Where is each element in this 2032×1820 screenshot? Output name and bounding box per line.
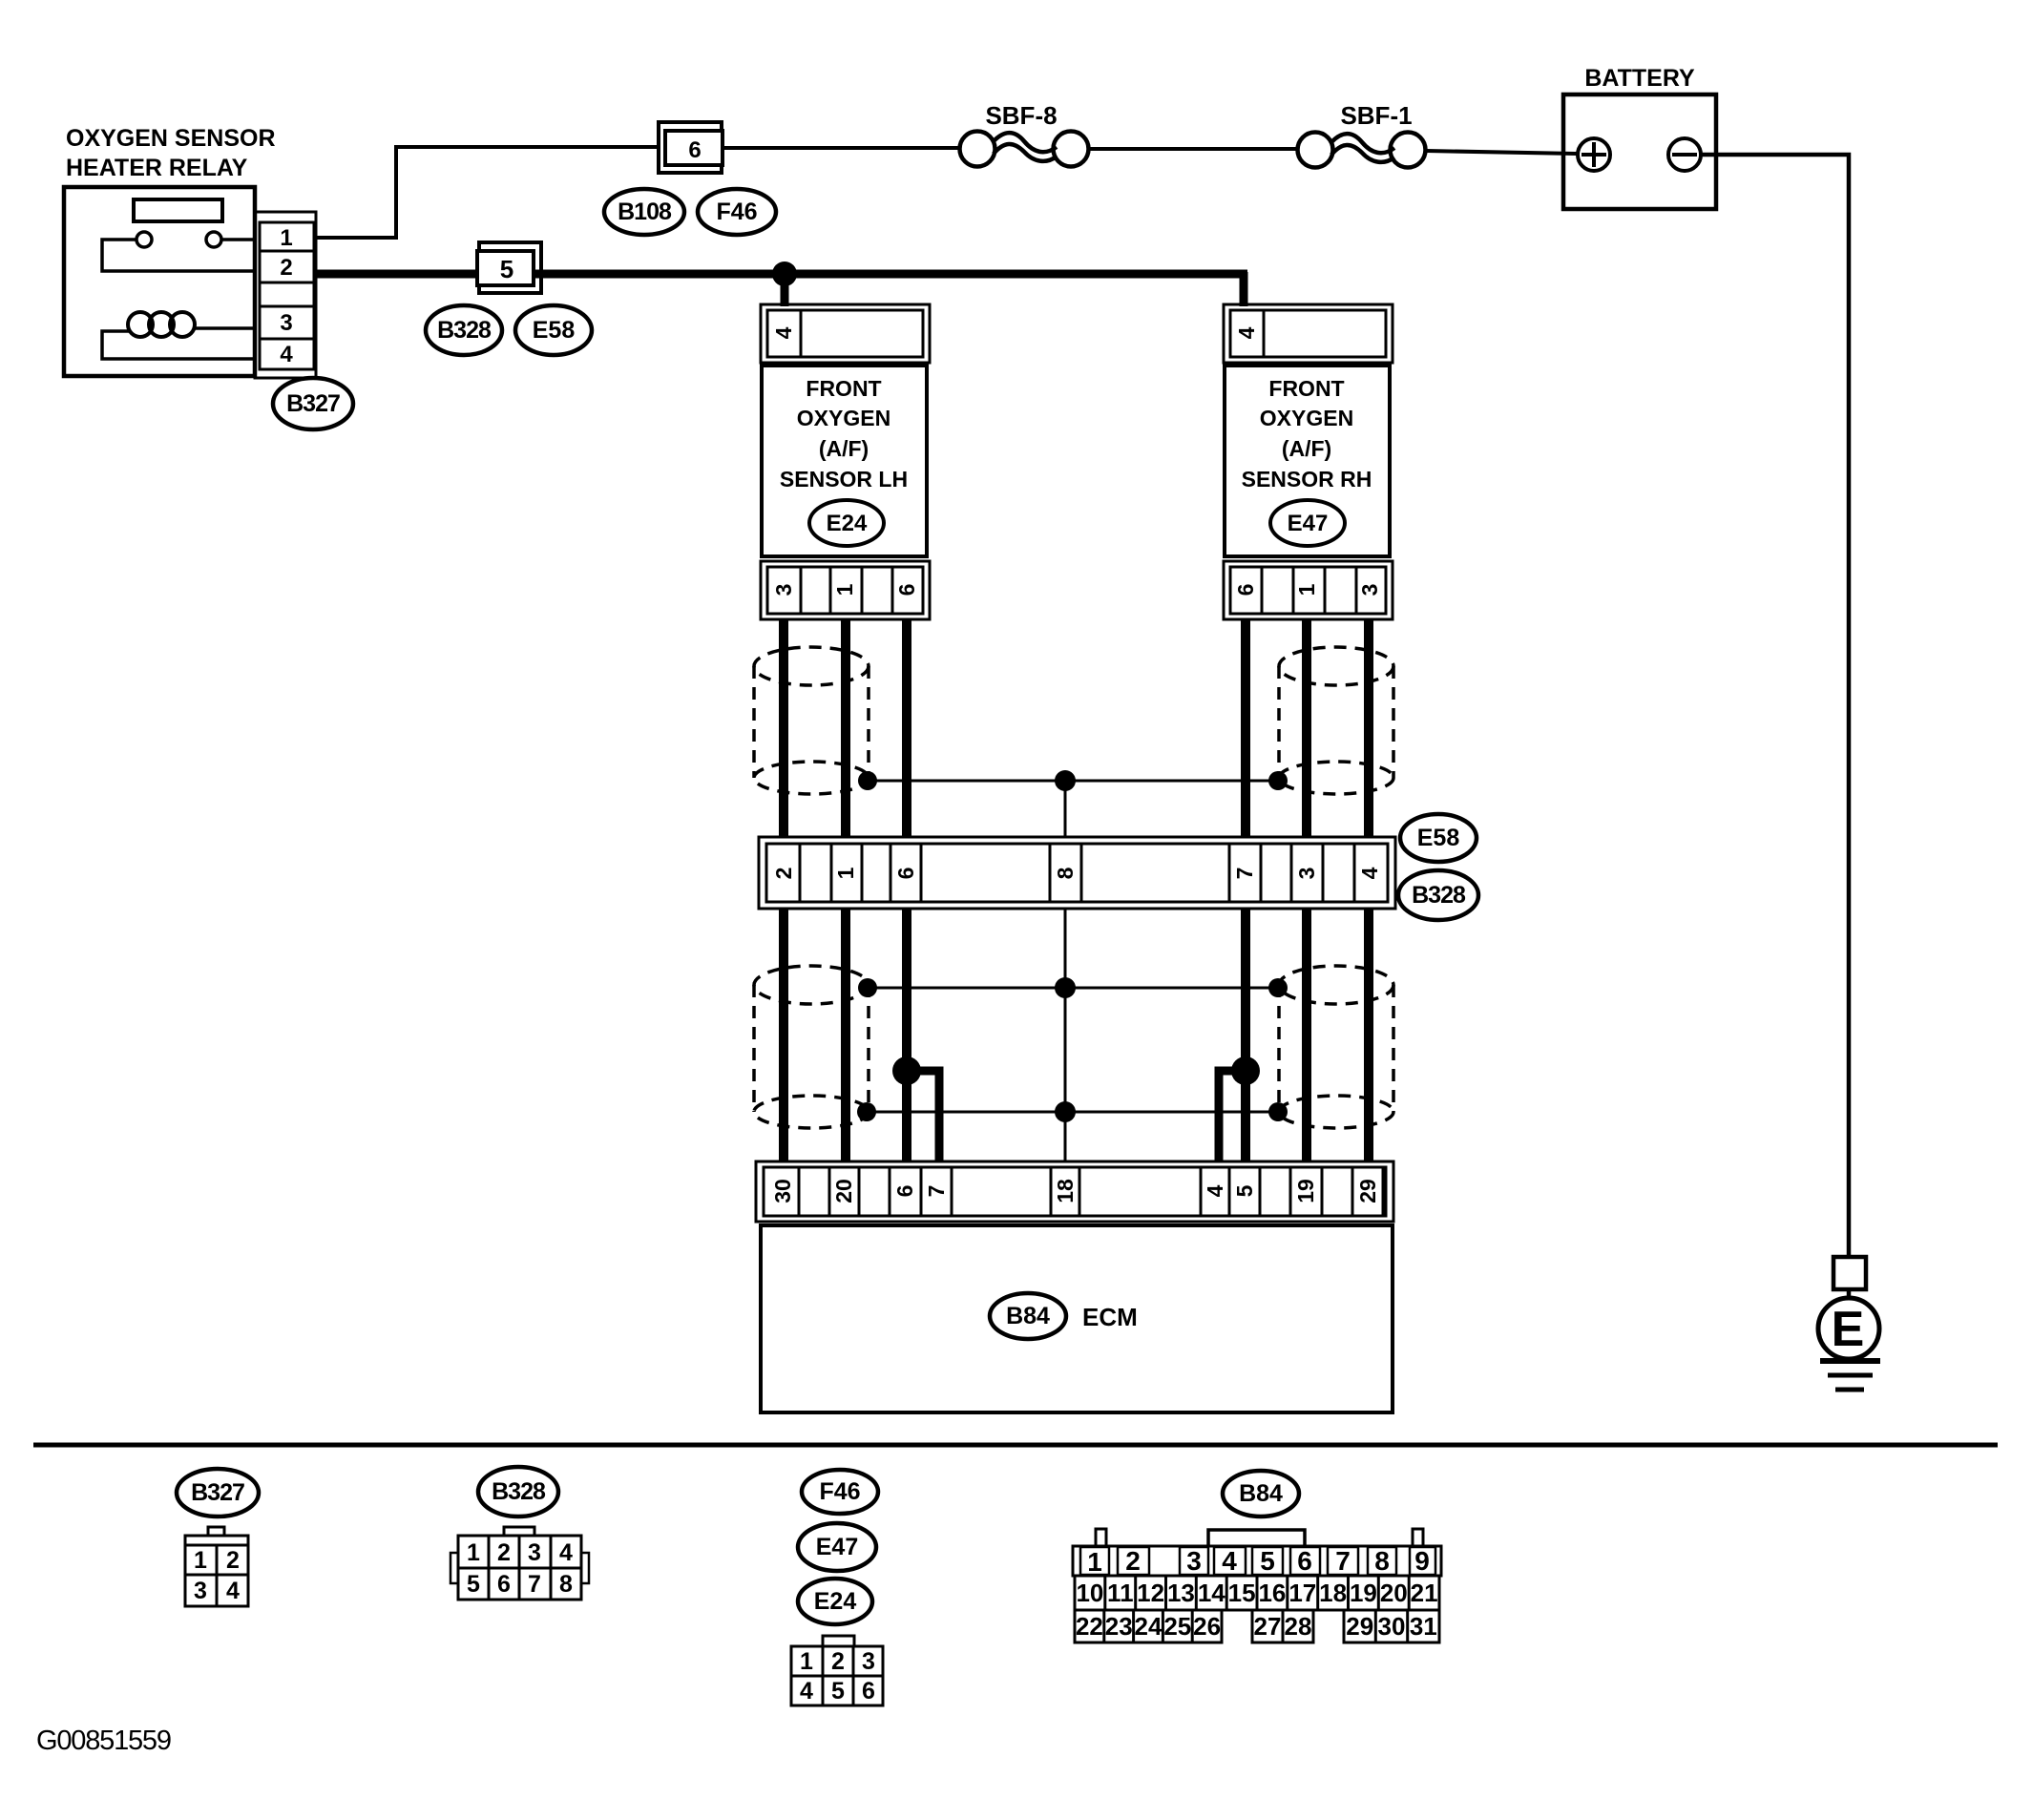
legend connector B327 (2x2) (208, 1527, 224, 1536)
svg-text:29: 29 (1346, 1612, 1373, 1641)
svg-text:1: 1 (1087, 1547, 1102, 1577)
svg-text:1: 1 (1294, 583, 1319, 596)
svg-text:6: 6 (1233, 584, 1258, 596)
relay contact bar (134, 199, 222, 221)
wire: bus drop to LH sensor pin 4 (781, 274, 789, 306)
wire: B327 pin 1 up to fuse 6 (316, 147, 660, 238)
svg-text:17: 17 (1288, 1579, 1316, 1607)
front oxygen (A/F) sensor LH box (762, 366, 927, 556)
wire: right contact to pin 1 (221, 238, 255, 241)
ellipse label F46 (fuse 6) (698, 189, 776, 235)
svg-text:20: 20 (831, 1179, 856, 1203)
svg-text:5: 5 (1260, 1546, 1275, 1576)
shield drain wire (lower bottom) (867, 1111, 1278, 1114)
svg-text:1: 1 (280, 225, 292, 251)
fuse 6 (659, 122, 722, 173)
svg-text:E47: E47 (1288, 511, 1329, 536)
svg-text:24: 24 (1135, 1612, 1163, 1641)
svg-text:B84: B84 (1006, 1303, 1050, 1329)
svg-text:20: 20 (1380, 1579, 1408, 1607)
junction dot LH branch (892, 1056, 921, 1085)
svg-text:8: 8 (1053, 867, 1078, 879)
svg-text:E24: E24 (814, 1588, 857, 1615)
branch wire to ECM 4 (1219, 1071, 1246, 1161)
battery - terminal (1668, 138, 1701, 171)
svg-text:B84: B84 (1239, 1480, 1283, 1507)
wire: SBF-8 to SBF-1 (1089, 147, 1298, 151)
svg-text:4: 4 (800, 1678, 813, 1705)
RH sensor top connector (pin 4) (1224, 304, 1393, 363)
svg-text:E24: E24 (827, 511, 868, 536)
svg-text:19: 19 (1293, 1179, 1318, 1203)
svg-text:SBF-8: SBF-8 (985, 101, 1057, 130)
svg-text:7: 7 (528, 1571, 541, 1598)
wire: coil left lead to pin 4 (102, 331, 255, 359)
svg-text:3: 3 (1186, 1546, 1202, 1576)
ellipse label B84 (in ECM) (990, 1293, 1066, 1339)
svg-text:6: 6 (893, 868, 918, 880)
svg-text:SENSOR LH: SENSOR LH (780, 467, 908, 492)
svg-text:4: 4 (226, 1578, 240, 1604)
svg-text:30: 30 (770, 1179, 795, 1203)
relay contact right (206, 232, 221, 247)
svg-text:10: 10 (1076, 1579, 1103, 1607)
svg-text:2: 2 (831, 1648, 845, 1675)
svg-text:OXYGEN: OXYGEN (1260, 406, 1353, 430)
svg-text:2: 2 (497, 1539, 511, 1566)
legend ellipse E24 (798, 1579, 872, 1624)
ellipse label B328 (at fuse 5) (426, 305, 502, 355)
wire: SBF-1 to battery (1426, 151, 1579, 154)
relay box (oxygen sensor heater relay body) (64, 187, 255, 376)
LH sensor bottom connector (pins 3,1,6) (761, 561, 930, 619)
legend ellipse B328 (478, 1467, 558, 1517)
svg-text:7: 7 (1232, 868, 1257, 880)
svg-text:B328: B328 (1412, 882, 1466, 909)
ECM box (761, 1225, 1393, 1412)
svg-text:6: 6 (497, 1571, 511, 1598)
svg-text:7: 7 (924, 1185, 949, 1198)
shield drain wire (lower top) (868, 987, 1278, 990)
svg-text:18: 18 (1319, 1579, 1347, 1607)
svg-text:(A/F): (A/F) (819, 436, 869, 461)
connector row E58/B328 (759, 837, 1395, 909)
svg-text:3: 3 (1357, 584, 1382, 596)
svg-text:27: 27 (1254, 1612, 1282, 1641)
wire: bus drop to RH sensor pin 4 (1240, 272, 1248, 306)
svg-text:SBF-1: SBF-1 (1340, 101, 1412, 130)
svg-text:OXYGEN: OXYGEN (797, 406, 890, 430)
wire: coil right lead to pin 3 (195, 326, 255, 330)
svg-text:8: 8 (559, 1571, 573, 1598)
svg-text:4: 4 (1234, 326, 1259, 339)
svg-text:1: 1 (800, 1648, 813, 1675)
row pin numbers 2,1,6,8,7,3,4 (771, 867, 1382, 879)
drain dot LH upper (858, 771, 877, 790)
legend connector B84 row3 (1075, 1610, 1439, 1642)
svg-text:1: 1 (194, 1547, 207, 1574)
svg-text:HEATER RELAY: HEATER RELAY (66, 155, 248, 181)
wire 8 to ECM 18 (1064, 909, 1067, 1161)
svg-text:E47: E47 (816, 1534, 858, 1560)
svg-text:26: 26 (1193, 1612, 1221, 1641)
svg-text:5: 5 (1232, 1184, 1257, 1197)
svg-text:B328: B328 (437, 317, 492, 344)
shield (upper RH, dashed) (1279, 647, 1393, 794)
legend connector B84 row2 (1075, 1576, 1439, 1610)
svg-text:2: 2 (226, 1547, 240, 1574)
ECM pin numbers 30,20,6,7,18,4,5,19,29 (770, 1179, 1380, 1203)
junction on bus above LH sensor (772, 261, 797, 286)
connector B327 on relay (pins 1-4) (255, 212, 316, 378)
svg-text:4: 4 (771, 326, 796, 339)
svg-text:B327: B327 (191, 1479, 244, 1506)
drain dot RH upper (1268, 771, 1288, 790)
svg-text:2: 2 (1125, 1546, 1141, 1576)
svg-text:3: 3 (280, 310, 292, 336)
svg-text:5: 5 (467, 1571, 480, 1598)
svg-text:15: 15 (1228, 1579, 1256, 1607)
svg-text:6: 6 (892, 1185, 917, 1198)
wire row pin3 to ECM 19 (1302, 909, 1311, 1161)
svg-text:3: 3 (771, 584, 796, 596)
front oxygen (A/F) sensor RH box (1225, 366, 1390, 556)
svg-text:2: 2 (280, 255, 292, 281)
svg-text:G00851559: G00851559 (36, 1726, 171, 1756)
junction dot RH branch (1231, 1056, 1260, 1085)
svg-text:ECM: ECM (1082, 1303, 1138, 1331)
ground stem (1847, 1289, 1852, 1300)
relay label: OXYGEN SENSOR HEATER RELAY (66, 125, 276, 181)
svg-text:E58: E58 (533, 317, 576, 344)
ellipse label E24 (809, 500, 884, 546)
svg-text:B328: B328 (492, 1478, 546, 1505)
wire RH pin 1 down (1302, 619, 1311, 837)
svg-text:SENSOR RH: SENSOR RH (1242, 467, 1372, 492)
legend ellipse B84 (1223, 1471, 1299, 1517)
shield (upper LH, dashed) (754, 647, 869, 794)
svg-text:6: 6 (688, 137, 701, 163)
svg-text:4: 4 (1203, 1184, 1227, 1197)
ellipse label B108 (fuse 6) (604, 189, 684, 235)
wire LH pin 6 down (902, 619, 911, 837)
svg-text:4: 4 (1357, 867, 1382, 879)
svg-text:1: 1 (832, 583, 857, 596)
svg-text:21: 21 (1411, 1579, 1438, 1607)
branch wire to ECM 7 (907, 1071, 939, 1161)
RH sensor bottom connector (pins 6,1,3) (1224, 561, 1393, 619)
svg-text:31: 31 (1410, 1612, 1437, 1641)
svg-text:(A/F): (A/F) (1282, 436, 1331, 461)
junction dot wire 8 upper (1055, 770, 1076, 791)
svg-text:18: 18 (1053, 1179, 1078, 1203)
ground bars (1820, 1358, 1880, 1364)
shield drain wire (upper) (868, 780, 1278, 783)
legend connector E24/E47/F46 (2x3) (823, 1636, 854, 1646)
ellipse label E58 (at fuse 5) (515, 305, 592, 355)
svg-text:6: 6 (1297, 1546, 1312, 1576)
shield (lower RH, dashed) (1279, 966, 1393, 1128)
svg-text:OXYGEN SENSOR: OXYGEN SENSOR (66, 125, 276, 152)
LH sensor top connector (pin 4) (761, 304, 930, 363)
svg-text:6: 6 (894, 584, 919, 596)
wire: battery - to ground drop (1701, 155, 1849, 1259)
svg-text:9: 9 (1414, 1546, 1430, 1576)
svg-text:12: 12 (1137, 1579, 1164, 1607)
ellipse label E58 (row) (1400, 814, 1477, 862)
wire RH pin 3 down (1364, 619, 1373, 837)
wire row pin1 to ECM 20 (841, 909, 850, 1161)
svg-text:25: 25 (1163, 1612, 1191, 1641)
svg-text:13: 13 (1167, 1579, 1195, 1607)
svg-text:1: 1 (467, 1539, 480, 1566)
ellipse label E47 (1270, 500, 1345, 546)
svg-text:28: 28 (1285, 1612, 1312, 1641)
svg-text:16: 16 (1258, 1579, 1286, 1607)
svg-text:3: 3 (194, 1578, 207, 1604)
ellipse label B327 (relay connector) (273, 378, 353, 429)
svg-text:3: 3 (862, 1648, 875, 1675)
wire row pin2 to ECM 30 (779, 909, 788, 1161)
ECM connector row B84 pins (756, 1161, 1393, 1222)
svg-text:1: 1 (833, 867, 858, 879)
svg-text:3: 3 (528, 1539, 541, 1566)
svg-text:8: 8 (1374, 1546, 1390, 1576)
drain dots lower (858, 978, 877, 997)
svg-text:14: 14 (1198, 1579, 1225, 1607)
pin numbers 1-4 of B327 (280, 225, 293, 367)
svg-text:29: 29 (1355, 1179, 1380, 1203)
wire row pin6 to ECM 6 (902, 909, 911, 1161)
wire LH pin 3 down (779, 619, 788, 837)
svg-text:2: 2 (771, 868, 796, 880)
wire: fuse 6 to SBF-8 (722, 146, 960, 150)
wire 8 (shield ground) (1064, 781, 1067, 837)
shield (lower LH, dashed) (754, 966, 869, 1128)
ellipse label B328 (row) (1398, 870, 1478, 920)
junction dots wire 8 lower (1055, 977, 1076, 998)
svg-text:4: 4 (1222, 1546, 1237, 1576)
fuse 5 (479, 242, 541, 293)
svg-text:5: 5 (500, 255, 513, 283)
svg-text:22: 22 (1076, 1612, 1103, 1641)
legend connector B84 row1 (1096, 1529, 1106, 1546)
svg-text:FRONT: FRONT (1268, 376, 1344, 401)
svg-text:BATTERY: BATTERY (1584, 65, 1695, 92)
relay contact left (136, 232, 152, 247)
svg-text:5: 5 (831, 1678, 845, 1705)
svg-text:23: 23 (1105, 1612, 1133, 1641)
svg-text:3: 3 (1294, 868, 1319, 880)
svg-text:B108: B108 (618, 199, 672, 225)
wire LH pin 1 down (841, 619, 850, 837)
wire RH pin 6 down (1241, 619, 1250, 837)
svg-text:E: E (1832, 1302, 1865, 1357)
legend ellipse F46 (802, 1470, 878, 1514)
separator line (33, 1443, 1998, 1448)
wire: left contact to pin 2 (102, 240, 255, 271)
battery + terminal (1578, 138, 1610, 171)
ground connector square (1833, 1257, 1866, 1289)
wire: thick power bus from B327 pin 2 (316, 270, 1247, 279)
svg-text:E58: E58 (1417, 825, 1460, 851)
wire: bus stub at fuse 5 right (534, 270, 543, 279)
wire row pin4 to ECM 29 (1364, 909, 1373, 1161)
svg-text:11: 11 (1107, 1579, 1134, 1607)
svg-text:F46: F46 (716, 199, 757, 225)
svg-text:4: 4 (559, 1539, 573, 1566)
svg-text:30: 30 (1378, 1612, 1406, 1641)
svg-text:FRONT: FRONT (806, 376, 881, 401)
legend connector B328 (2x4) (504, 1527, 534, 1536)
legend ellipse E47 (798, 1523, 876, 1571)
svg-text:6: 6 (862, 1678, 875, 1705)
svg-text:F46: F46 (819, 1478, 860, 1505)
svg-text:19: 19 (1350, 1579, 1377, 1607)
ground circle E (1818, 1298, 1879, 1359)
relay coil (128, 312, 195, 337)
legend ellipse B327 (177, 1469, 259, 1517)
wire row pin7 to ECM 5 (1241, 909, 1250, 1161)
svg-text:4: 4 (280, 342, 293, 367)
svg-text:B327: B327 (286, 390, 340, 417)
svg-text:7: 7 (1335, 1546, 1351, 1576)
